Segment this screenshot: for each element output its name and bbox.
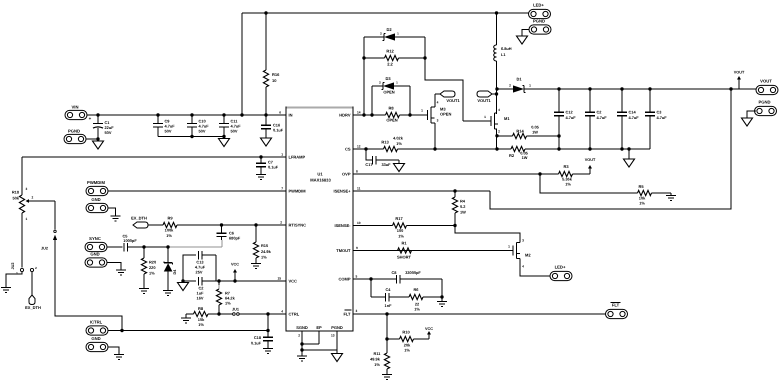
svg-text:D3: D3	[385, 76, 391, 81]
svg-text:ISENSE-: ISENSE-	[334, 223, 351, 228]
svg-text:R16: R16	[272, 72, 280, 77]
svg-text:1: 1	[484, 115, 486, 119]
svg-text:4.7uF: 4.7uF	[629, 115, 640, 120]
svg-text:SYNC: SYNC	[89, 236, 101, 241]
svg-text:33uF: 33uF	[381, 162, 391, 167]
svg-text:C8: C8	[392, 270, 398, 275]
svg-text:4.02k: 4.02k	[393, 136, 404, 141]
svg-text:C18: C18	[254, 335, 262, 340]
svg-text:R10: R10	[402, 330, 410, 335]
svg-text:VIN: VIN	[72, 105, 79, 110]
svg-text:1%: 1%	[198, 322, 204, 327]
svg-text:49.9k: 49.9k	[370, 357, 381, 362]
svg-text:COMP: COMP	[339, 277, 351, 282]
svg-text:VOUT1: VOUT1	[446, 98, 460, 103]
svg-text:220: 220	[149, 265, 156, 270]
svg-text:GND: GND	[90, 252, 99, 257]
svg-text:LFRAMP: LFRAMP	[289, 155, 306, 160]
svg-text:1nF: 1nF	[385, 303, 393, 308]
svg-text:R15: R15	[261, 243, 269, 248]
svg-text:1: 1	[508, 245, 510, 249]
svg-text:1%: 1%	[261, 255, 267, 260]
svg-text:2: 2	[509, 84, 511, 88]
svg-text:GND: GND	[91, 336, 100, 341]
svg-text:EX_DTH: EX_DTH	[25, 305, 41, 310]
svg-text:EP: EP	[316, 325, 322, 330]
svg-text:C14: C14	[629, 110, 637, 115]
svg-text:VOUT: VOUT	[760, 79, 772, 84]
svg-text:1%: 1%	[565, 182, 571, 187]
svg-text:R20: R20	[149, 260, 156, 265]
svg-text:C12: C12	[566, 110, 574, 115]
svg-text:R1: R1	[401, 241, 407, 246]
svg-text:CTRL: CTRL	[289, 312, 300, 317]
svg-text:+: +	[89, 116, 92, 121]
svg-text:VOUT1: VOUT1	[477, 98, 491, 103]
svg-text:R4: R4	[460, 199, 466, 204]
svg-text:2: 2	[298, 334, 300, 338]
svg-text:50V: 50V	[165, 129, 172, 134]
svg-text:1%: 1%	[166, 233, 172, 238]
svg-text:10: 10	[272, 78, 277, 83]
svg-text:VCC: VCC	[231, 263, 239, 267]
svg-text:50V: 50V	[105, 130, 112, 135]
svg-text:1%: 1%	[414, 307, 420, 312]
svg-text:R2: R2	[509, 153, 515, 158]
svg-text:1W: 1W	[460, 210, 466, 215]
svg-text:D2: D2	[386, 27, 392, 32]
svg-text:SGND: SGND	[296, 325, 308, 330]
svg-text:R8: R8	[198, 306, 204, 311]
svg-text:4: 4	[437, 101, 439, 105]
svg-text:1: 1	[529, 84, 531, 88]
svg-text:D1: D1	[516, 77, 522, 82]
svg-text:4: 4	[281, 310, 283, 314]
svg-text:5: 5	[356, 275, 358, 279]
svg-text:4: 4	[522, 265, 524, 269]
svg-text:50V: 50V	[199, 129, 206, 134]
svg-text:50V: 50V	[231, 129, 238, 134]
svg-text:CS: CS	[345, 147, 351, 152]
svg-text:1%: 1%	[398, 234, 404, 239]
svg-text:25V: 25V	[196, 270, 203, 275]
svg-text:680pF: 680pF	[229, 236, 241, 241]
svg-text:SHORT: SHORT	[397, 255, 412, 260]
svg-text:MAX16833: MAX16833	[310, 178, 331, 183]
svg-text:50k: 50k	[13, 196, 20, 201]
svg-text:R6: R6	[414, 287, 420, 292]
svg-text:JU1: JU1	[232, 308, 239, 312]
svg-text:7: 7	[281, 187, 283, 191]
svg-text:C17: C17	[365, 162, 372, 167]
svg-text:OPEN: OPEN	[440, 112, 451, 117]
svg-text:C3: C3	[657, 110, 663, 115]
svg-text:1: 1	[281, 153, 283, 157]
svg-text:15: 15	[277, 277, 281, 281]
svg-text:R5: R5	[638, 184, 644, 189]
svg-text:R11: R11	[374, 351, 382, 356]
svg-text:VCC: VCC	[289, 279, 298, 284]
svg-text:TMOUT: TMOUT	[336, 248, 351, 253]
svg-text:0.1uF: 0.1uF	[251, 341, 262, 346]
svg-text:1000pF: 1000pF	[123, 238, 137, 243]
svg-text:PWMDIM: PWMDIM	[87, 180, 105, 185]
svg-text:VOUT: VOUT	[734, 71, 745, 75]
svg-text:C2: C2	[597, 110, 603, 115]
svg-text:14: 14	[357, 111, 361, 115]
svg-text:100k: 100k	[165, 228, 174, 233]
svg-text:10: 10	[357, 221, 361, 225]
svg-text:3: 3	[437, 119, 439, 123]
svg-text:0.1uF: 0.1uF	[273, 128, 284, 133]
svg-text:HDRV: HDRV	[339, 113, 351, 118]
svg-text:R9: R9	[167, 216, 173, 221]
svg-text:R8: R8	[388, 106, 394, 111]
svg-text:R18: R18	[12, 190, 20, 195]
svg-text:8: 8	[356, 170, 358, 174]
svg-text:2.2: 2.2	[387, 62, 393, 67]
svg-text:4.7uF: 4.7uF	[657, 115, 668, 120]
svg-text:U1: U1	[317, 172, 323, 177]
svg-text:0.1uF: 0.1uF	[268, 165, 279, 170]
svg-text:4.7uF: 4.7uF	[597, 115, 608, 120]
svg-text:3: 3	[522, 239, 524, 243]
svg-text:0.2: 0.2	[460, 204, 466, 209]
svg-text:11: 11	[357, 187, 361, 191]
svg-text:9: 9	[356, 246, 358, 250]
svg-text:1%: 1%	[396, 141, 402, 146]
svg-text:RT/SYNC: RT/SYNC	[289, 223, 307, 228]
svg-text:16V: 16V	[197, 296, 204, 301]
svg-text:1W: 1W	[532, 130, 538, 135]
svg-text:1W: 1W	[522, 155, 528, 160]
svg-text:3: 3	[356, 309, 358, 313]
svg-text:R17: R17	[395, 216, 403, 221]
svg-text:4: 4	[498, 108, 500, 112]
svg-text:1%: 1%	[149, 271, 155, 276]
svg-text:JU2: JU2	[41, 247, 48, 251]
svg-text:LED+: LED+	[555, 265, 566, 270]
svg-text:LED+: LED+	[533, 3, 544, 8]
svg-text:GND: GND	[91, 197, 100, 202]
svg-text:R14: R14	[516, 129, 524, 134]
svg-text:33000pF: 33000pF	[405, 270, 421, 275]
svg-text:6: 6	[279, 111, 281, 115]
svg-text:PGND: PGND	[331, 325, 343, 330]
svg-text:13: 13	[331, 334, 335, 338]
svg-text:PGND: PGND	[533, 19, 545, 24]
svg-text:1: 1	[421, 109, 423, 113]
svg-text:PWMDIM: PWMDIM	[289, 189, 307, 194]
svg-text:OPEN: OPEN	[386, 118, 397, 123]
svg-text:EX_DTH: EX_DTH	[131, 216, 147, 221]
svg-text:JU2: JU2	[11, 263, 15, 270]
svg-text:1%: 1%	[639, 201, 645, 206]
svg-text:1%: 1%	[404, 348, 410, 353]
svg-text:M1: M1	[504, 116, 510, 121]
svg-text:12: 12	[357, 145, 361, 149]
svg-text:R13: R13	[381, 140, 389, 145]
svg-text:24.9k: 24.9k	[261, 249, 272, 254]
svg-text:ICTRL: ICTRL	[90, 320, 103, 325]
svg-text:OVP: OVP	[342, 172, 351, 177]
svg-text:FLT: FLT	[343, 312, 351, 317]
svg-text:3: 3	[26, 187, 28, 191]
svg-text:VOUT: VOUT	[585, 158, 596, 162]
svg-text:1%: 1%	[374, 362, 380, 367]
svg-text:1%: 1%	[225, 301, 231, 306]
svg-text:R3: R3	[563, 164, 569, 169]
svg-text:M2: M2	[525, 253, 531, 258]
svg-text:ISENSE+: ISENSE+	[333, 189, 351, 194]
svg-text:PGND: PGND	[758, 100, 770, 105]
svg-text:2: 2	[280, 221, 282, 225]
svg-text:IN: IN	[289, 113, 293, 118]
svg-text:1: 1	[26, 217, 28, 221]
svg-text:6.8uH: 6.8uH	[501, 46, 512, 51]
svg-text:PGND: PGND	[68, 129, 80, 134]
svg-text:100: 100	[397, 228, 404, 233]
svg-text:4.7uF: 4.7uF	[566, 115, 577, 120]
svg-text:C4: C4	[386, 287, 392, 292]
svg-text:2: 2	[32, 196, 34, 200]
svg-text:OPEN: OPEN	[383, 90, 394, 95]
svg-text:R12: R12	[386, 49, 394, 54]
svg-text:FLT: FLT	[612, 303, 620, 308]
svg-text:2: 2	[498, 130, 500, 134]
svg-text:VCC: VCC	[425, 327, 433, 331]
